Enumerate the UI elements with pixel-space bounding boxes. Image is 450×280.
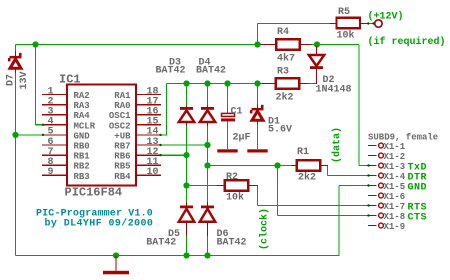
svg-text:1N4148: 1N4148: [316, 85, 352, 96]
svg-text:RA2: RA2: [74, 91, 90, 101]
svg-text:10k: 10k: [337, 30, 355, 42]
svg-text:10: 10: [147, 167, 159, 178]
svg-text:OSC2: OSC2: [109, 121, 131, 131]
svg-text:+UB: +UB: [114, 131, 131, 141]
svg-text:2k2: 2k2: [298, 172, 316, 184]
svg-text:BAT42: BAT42: [217, 238, 247, 249]
svg-text:X1-6: X1-6: [384, 192, 406, 202]
svg-text:X1-4: X1-4: [384, 172, 406, 182]
svg-text:13V: 13V: [19, 71, 30, 89]
svg-text:PIC16F84: PIC16F84: [65, 186, 123, 200]
svg-text:IC1: IC1: [59, 73, 81, 87]
svg-text:RB5: RB5: [114, 162, 130, 172]
svg-text:9: 9: [47, 167, 53, 178]
svg-text:RB7: RB7: [114, 142, 130, 152]
svg-text:2k2: 2k2: [276, 92, 294, 104]
svg-text:SUBD9, female: SUBD9, female: [368, 133, 438, 143]
svg-text:CTS: CTS: [408, 213, 428, 224]
svg-text:X1-5: X1-5: [384, 182, 406, 192]
svg-text:RB1: RB1: [74, 152, 91, 162]
svg-text:X1-7: X1-7: [384, 202, 406, 212]
svg-text:X1-8: X1-8: [384, 212, 406, 222]
svg-text:R3: R3: [277, 67, 289, 78]
svg-text:C1: C1: [231, 107, 243, 118]
svg-text:X1-3: X1-3: [384, 162, 406, 172]
svg-text:2µF: 2µF: [233, 133, 251, 144]
svg-text:(+12V): (+12V): [368, 11, 404, 23]
svg-text:MCLR: MCLR: [74, 121, 96, 131]
svg-text:X1-1: X1-1: [384, 142, 406, 152]
svg-text:X1-9: X1-9: [384, 222, 406, 232]
svg-text:GND: GND: [74, 131, 91, 141]
svg-text:R1: R1: [297, 147, 309, 158]
svg-text:RB0: RB0: [74, 142, 90, 152]
svg-text:RA3: RA3: [74, 101, 90, 111]
svg-text:BAT42: BAT42: [156, 66, 186, 77]
svg-text:RA4: RA4: [74, 111, 91, 121]
svg-text:RB6: RB6: [114, 152, 130, 162]
svg-text:R4: R4: [277, 27, 289, 38]
svg-text:10k: 10k: [226, 192, 244, 204]
svg-text:D7: D7: [6, 74, 17, 86]
svg-text:RA1: RA1: [114, 91, 131, 101]
svg-text:5.6V: 5.6V: [268, 125, 292, 136]
svg-text:RA0: RA0: [114, 101, 130, 111]
svg-text:4k7: 4k7: [277, 53, 295, 65]
svg-text:OSC1: OSC1: [109, 111, 131, 121]
svg-text:(if required): (if required): [368, 36, 446, 48]
svg-text:BAT42: BAT42: [146, 238, 176, 249]
svg-text:(data): (data): [331, 127, 343, 163]
svg-text:by DL4YHF 09/2000: by DL4YHF 09/2000: [45, 218, 154, 230]
svg-text:GND: GND: [408, 183, 428, 194]
svg-text:RB2: RB2: [74, 162, 90, 172]
svg-text:(clock): (clock): [259, 208, 271, 250]
svg-text:R2: R2: [226, 172, 238, 183]
svg-text:BAT42: BAT42: [196, 66, 226, 77]
svg-text:R5: R5: [338, 7, 350, 18]
svg-text:X1-2: X1-2: [384, 152, 406, 162]
svg-text:RB3: RB3: [74, 172, 90, 182]
svg-text:RB4: RB4: [114, 172, 131, 182]
